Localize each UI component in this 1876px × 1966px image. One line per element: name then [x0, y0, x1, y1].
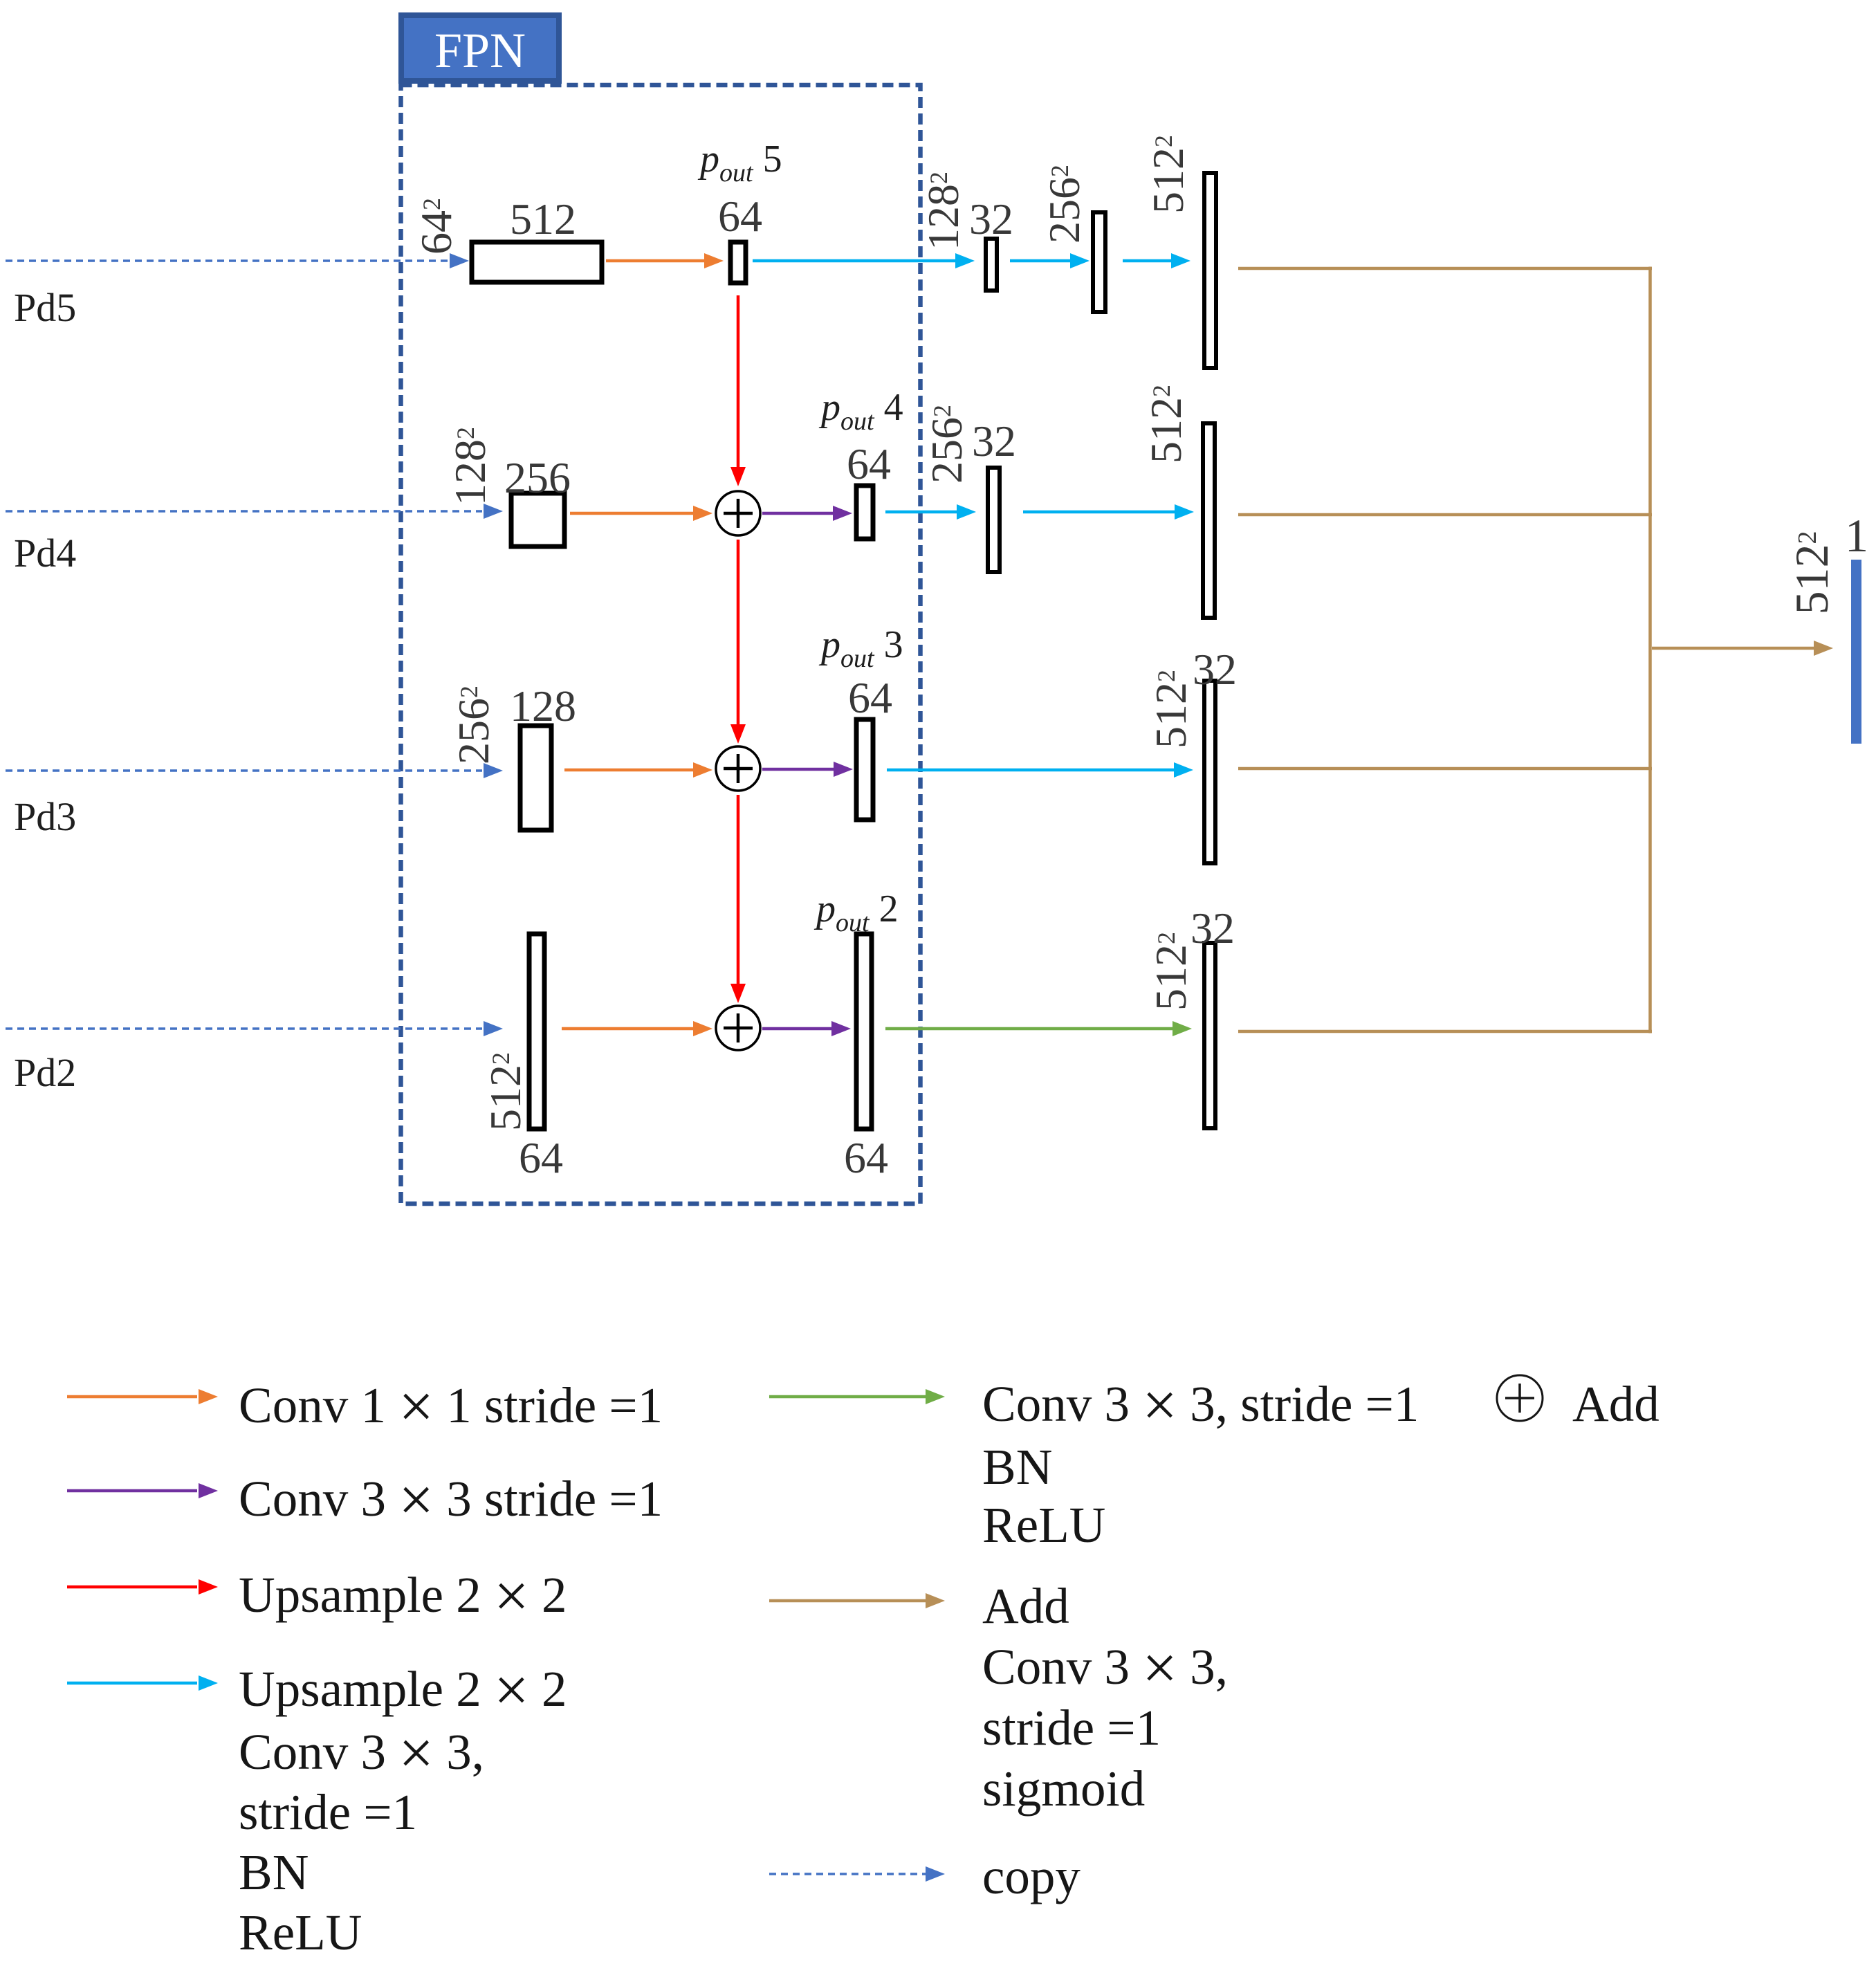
- svg-text:5122: 5122: [1143, 135, 1193, 214]
- svg-text:2562: 2562: [1040, 165, 1089, 244]
- legend conv1x1 orange arrow: [67, 1389, 218, 1404]
- svg-text:32: 32: [969, 194, 1013, 244]
- svg-text:Pd5: Pd5: [14, 285, 76, 330]
- op add circle row4: [716, 1006, 760, 1050]
- wire add line row2 to sum: [1238, 513, 1652, 517]
- node feature map 512^2 row4: [1204, 943, 1215, 1128]
- svg-text:32: 32: [972, 416, 1016, 466]
- node p_out2 rect: [856, 934, 872, 1129]
- svg-text:1282: 1282: [445, 427, 495, 506]
- legend conv-bn-relu text block: [982, 1371, 1419, 1553]
- svg-text:642: 642: [412, 198, 461, 255]
- svg-text:1282: 1282: [919, 172, 968, 250]
- svg-text:pout5: pout5: [697, 138, 782, 187]
- svg-text:64: 64: [844, 1133, 888, 1182]
- node input feature map row1 (64x64, 512ch): [472, 242, 602, 282]
- legend add-conv-sigmoid text block: [982, 1578, 1228, 1817]
- svg-text:5122: 5122: [1785, 531, 1838, 615]
- FPN label box: [401, 15, 559, 81]
- svg-text:copy: copy: [982, 1848, 1080, 1904]
- svg-text:Conv 3 × 3,: Conv 3 × 3,: [239, 1719, 484, 1788]
- node feature map 512^2 row3: [1204, 681, 1215, 863]
- svg-text:ReLU: ReLU: [239, 1904, 362, 1960]
- svg-text:pout3: pout3: [818, 623, 903, 673]
- node feature map 256^2 row1: [1093, 212, 1105, 312]
- svg-text:Upsample 2 × 2: Upsample 2 × 2: [239, 1562, 567, 1630]
- legend conv-bn-relu green arrow: [769, 1389, 945, 1404]
- svg-text:sigmoid: sigmoid: [982, 1761, 1145, 1817]
- svg-text:256: 256: [504, 453, 571, 502]
- svg-text:5122: 5122: [1146, 670, 1195, 748]
- wire copy arrow Pd4: [6, 504, 503, 519]
- wire conv3x3 arrow row2: [762, 506, 852, 521]
- svg-text:1: 1: [1845, 509, 1868, 562]
- svg-text:64: 64: [519, 1133, 563, 1182]
- svg-text:FPN: FPN: [434, 23, 526, 78]
- svg-text:stride =1: stride =1: [982, 1700, 1161, 1756]
- wire sum vertical line: [1648, 267, 1652, 1033]
- wire conv1x1 arrow row1: [606, 253, 724, 268]
- wire copy arrow Pd2: [6, 1021, 503, 1036]
- svg-text:32: 32: [1190, 903, 1235, 953]
- svg-text:64: 64: [848, 673, 892, 722]
- wire upsample-conv arrow row2 b: [1023, 504, 1194, 520]
- node p_out3 rect: [856, 719, 873, 820]
- svg-text:5122: 5122: [1141, 385, 1190, 463]
- wire copy arrow Pd3: [6, 763, 503, 778]
- wire add line row3 to sum: [1238, 767, 1652, 771]
- wire add line row4 to sum: [1238, 1030, 1652, 1033]
- wire conv1x1 arrow row4: [562, 1021, 712, 1036]
- wire conv3x3-bn-relu green arrow row4: [885, 1021, 1192, 1036]
- node feature map 512^2 row1: [1204, 173, 1216, 368]
- svg-text:32: 32: [1193, 645, 1237, 694]
- legend add symbol: [1497, 1375, 1659, 1432]
- FPN dashed container: [401, 85, 921, 1204]
- wire conv3x3 arrow row3: [762, 762, 853, 777]
- wire upsample-conv arrow row3: [887, 762, 1193, 778]
- wire conv1x1 arrow row3: [564, 762, 712, 778]
- node feature map 512^2 row2: [1203, 423, 1215, 618]
- wire output arrow add-conv-sigmoid: [1652, 641, 1833, 656]
- op add circle row3: [716, 746, 760, 791]
- svg-text:ReLU: ReLU: [982, 1497, 1105, 1553]
- svg-text:512: 512: [510, 194, 576, 244]
- svg-text:stride =1: stride =1: [239, 1784, 417, 1840]
- legend copy dashed arrow: [769, 1866, 945, 1882]
- node feature map 128^2 32 row1: [986, 239, 997, 291]
- wire upsample-conv arrow row1 b: [1010, 253, 1089, 268]
- svg-text:64: 64: [718, 192, 762, 241]
- svg-text:Conv 1 × 1 stride =1: Conv 1 × 1 stride =1: [239, 1372, 663, 1441]
- svg-text:Pd2: Pd2: [14, 1050, 76, 1095]
- legend conv3x3 purple arrow: [67, 1483, 218, 1498]
- wire upsample red arrow row3 to row4 add: [730, 795, 746, 1003]
- wire add line row1 to sum: [1238, 267, 1652, 270]
- wire conv1x1 arrow row2: [570, 506, 712, 521]
- svg-text:Conv 3 × 3, stride =1: Conv 3 × 3, stride =1: [982, 1371, 1419, 1440]
- svg-text:Conv 3 × 3 stride =1: Conv 3 × 3 stride =1: [239, 1466, 663, 1534]
- svg-text:128: 128: [510, 681, 576, 731]
- svg-text:2562: 2562: [449, 686, 498, 764]
- svg-text:Pd3: Pd3: [14, 794, 76, 839]
- svg-text:BN: BN: [239, 1844, 309, 1900]
- svg-text:pout2: pout2: [813, 888, 899, 937]
- legend upsample-conv cyan arrow: [67, 1675, 218, 1691]
- node input feature map row4 (512x512, 64ch): [529, 934, 544, 1129]
- op add circle row2: [716, 491, 760, 535]
- wire upsample-conv arrow row1 c: [1123, 253, 1190, 268]
- node input feature map row2 (128x128, 256ch): [511, 493, 564, 546]
- node p_out5 rect: [730, 242, 746, 283]
- node p_out4 rect: [856, 486, 873, 539]
- svg-text:pout4: pout4: [818, 386, 903, 436]
- svg-text:Conv 3 × 3,: Conv 3 × 3,: [982, 1634, 1228, 1702]
- node output map 512^2 x1: [1851, 560, 1861, 744]
- svg-text:2562: 2562: [922, 405, 971, 484]
- svg-text:Upsample 2 × 2: Upsample 2 × 2: [239, 1656, 567, 1725]
- svg-text:Add: Add: [1572, 1376, 1659, 1432]
- svg-text:Add: Add: [982, 1578, 1069, 1634]
- svg-text:BN: BN: [982, 1439, 1052, 1495]
- svg-text:Pd4: Pd4: [14, 531, 76, 576]
- svg-text:5122: 5122: [481, 1052, 530, 1131]
- wire upsample red arrow row1 to row2 add: [730, 295, 746, 486]
- wire copy arrow Pd5: [6, 253, 469, 268]
- legend upsample-conv text block: [239, 1656, 567, 1960]
- wire conv3x3 arrow row4: [762, 1021, 851, 1036]
- node feature map 256^2 32 row2: [988, 468, 1000, 572]
- svg-text:5122: 5122: [1146, 932, 1195, 1011]
- wire upsample-conv arrow row1 a: [753, 253, 975, 268]
- wire upsample-conv arrow row2 a: [885, 504, 976, 520]
- wire upsample red arrow row2 to row3 add: [730, 540, 746, 744]
- legend upsample red arrow: [67, 1579, 218, 1595]
- node input feature map row3 (256x256, 128ch): [520, 726, 551, 830]
- legend add-conv-sigmoid brown arrow: [769, 1593, 945, 1608]
- svg-text:64: 64: [847, 439, 891, 488]
